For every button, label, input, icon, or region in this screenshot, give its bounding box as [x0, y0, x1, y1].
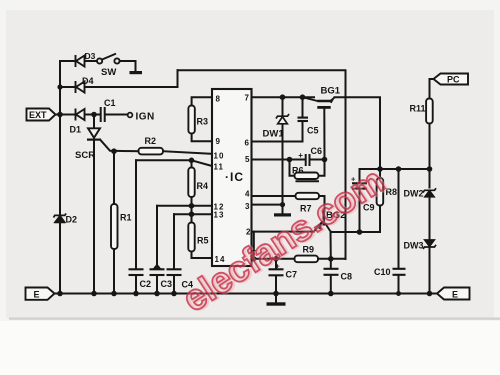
- wire mid right rail: [360, 168, 430, 170]
- wire pin13 line: [174, 213, 212, 215]
- wire pin2 line: [252, 231, 314, 233]
- wire bottom ground stub: [275, 294, 277, 303]
- wire R6 loop: [290, 160, 295, 176]
- transistor BG1: [303, 97, 336, 108]
- op-amp U1 IC box: [212, 89, 252, 266]
- svg-text:5: 5: [245, 155, 250, 164]
- resistor R9: [295, 256, 319, 263]
- transistor BG2: [314, 211, 331, 232]
- switch SW: [97, 54, 120, 64]
- diode D4: [76, 81, 85, 93]
- svg-text:2: 2: [246, 228, 251, 237]
- svg-text:DW1: DW1: [263, 129, 285, 140]
- svg-text:C6: C6: [311, 146, 323, 156]
- svg-text:·IC: ·IC: [225, 170, 244, 184]
- wire R5 to pin14: [192, 252, 213, 259]
- svg-text:C10: C10: [374, 267, 391, 277]
- svg-text:R2: R2: [145, 136, 157, 146]
- wire D3 branch: [60, 60, 76, 62]
- resistor R1: [111, 204, 118, 249]
- wire bottom rail: [55, 293, 438, 295]
- wire R8 bottom lead: [379, 206, 381, 233]
- svg-text:7: 7: [245, 94, 250, 103]
- wire BG2 collector drop: [330, 232, 332, 259]
- wire pin1-2 jumper: [253, 232, 255, 259]
- ground (switch): [130, 71, 143, 74]
- wire pin12 line: [157, 205, 212, 207]
- node IGN terminal: [128, 113, 133, 118]
- resistor R2: [139, 148, 164, 155]
- svg-text:EXT: EXT: [29, 110, 47, 120]
- wire C10 column: [398, 169, 400, 269]
- node E tag right: [437, 288, 470, 300]
- svg-text:C1: C1: [104, 98, 116, 108]
- wire node A horizontal: [136, 159, 192, 161]
- svg-text:13: 13: [214, 211, 225, 220]
- svg-text:C5: C5: [307, 126, 319, 136]
- svg-text:R1: R1: [120, 213, 132, 223]
- resistor R11: [426, 99, 433, 124]
- zener D2: [54, 213, 67, 222]
- svg-text:SW: SW: [101, 67, 116, 78]
- diode D1: [76, 109, 85, 121]
- capacitor C6: [306, 154, 310, 166]
- thyristor SCR: [87, 128, 101, 139]
- svg-text:DW3: DW3: [404, 241, 424, 251]
- capacitor C7: [269, 269, 284, 275]
- svg-text:R3: R3: [197, 117, 209, 127]
- wire C4 column: [173, 214, 175, 269]
- wire pin3 line: [252, 204, 283, 206]
- capacitor C5: [298, 118, 309, 121]
- svg-text:BG1: BG1: [321, 86, 341, 97]
- wire C9 column: [359, 169, 361, 183]
- watermark elecfans.com: [175, 158, 394, 321]
- node EXT tag: [27, 109, 56, 121]
- resistor R4: [188, 168, 194, 198]
- svg-text:C2: C2: [140, 279, 152, 289]
- svg-text:E: E: [452, 290, 458, 300]
- svg-text:D1: D1: [70, 125, 82, 135]
- wire C2 column: [135, 160, 137, 269]
- wire R1 column: [113, 151, 115, 293]
- wire pin4 line: [252, 195, 296, 197]
- wire pin6 line: [252, 141, 303, 143]
- capacitor C10: [393, 269, 406, 275]
- wire R7 to BG2: [319, 196, 325, 211]
- svg-text:R5: R5: [197, 236, 209, 246]
- capacitor C2: [129, 269, 144, 275]
- svg-text:R6: R6: [292, 166, 304, 176]
- wire C5 column: [302, 97, 304, 117]
- scan edge line: [9, 318, 500, 320]
- svg-text:+: +: [298, 151, 303, 160]
- svg-text:4: 4: [245, 190, 250, 199]
- svg-text:D2: D2: [66, 215, 78, 225]
- wire R3 loop: [192, 97, 212, 105]
- svg-text:SCR: SCR: [75, 150, 95, 161]
- svg-text:11: 11: [214, 163, 224, 172]
- diode D3: [76, 55, 85, 67]
- wire C7 node: [275, 259, 277, 269]
- wire R11 DW2 DW3 column: [429, 79, 431, 99]
- node E tag left: [26, 288, 55, 300]
- svg-text:6: 6: [245, 139, 250, 148]
- wire SCR gate to R2: [100, 140, 138, 151]
- zener DW1: [276, 114, 289, 124]
- svg-text:E: E: [34, 290, 40, 300]
- wire R6 underline: [297, 180, 319, 182]
- ground (pin3): [274, 213, 291, 216]
- wire top rail: [178, 70, 346, 259]
- wire C9 R8 bottom line: [331, 231, 381, 233]
- wire R2 to pin10: [163, 151, 212, 154]
- svg-text:9: 9: [216, 137, 221, 146]
- resistor R5: [188, 223, 194, 252]
- capacitor C8: [324, 269, 339, 275]
- wire BG1 base lead: [323, 108, 325, 160]
- resistor R6: [295, 173, 319, 180]
- wire node A to pin11: [192, 160, 213, 166]
- ground (bottom): [267, 302, 286, 305]
- svg-text:C8: C8: [341, 272, 353, 282]
- svg-text:PC: PC: [447, 75, 460, 85]
- zener DW2: [423, 188, 436, 197]
- svg-text:IGN: IGN: [136, 112, 155, 123]
- svg-text:C3: C3: [161, 279, 173, 289]
- capacitor C9: [352, 183, 367, 188]
- wire C3 column: [156, 206, 158, 269]
- capacitor C4: [167, 269, 182, 275]
- capacitor C3: [150, 264, 165, 276]
- wire D4 branch: [60, 86, 76, 88]
- wire EXT line: [55, 114, 76, 116]
- svg-text:DW2: DW2: [404, 189, 424, 199]
- resistor R3: [188, 106, 194, 134]
- svg-text:C7: C7: [286, 270, 298, 280]
- svg-text:8: 8: [216, 95, 221, 104]
- wire pin7 rail: [252, 96, 315, 98]
- wire DW1 column: [282, 97, 284, 115]
- capacitor C1: [101, 107, 105, 122]
- wire C8 column: [330, 259, 332, 269]
- svg-text:R11: R11: [410, 104, 426, 114]
- svg-text:3: 3: [245, 202, 250, 211]
- resistor R8: [377, 178, 384, 206]
- svg-text:R4: R4: [197, 181, 209, 191]
- resistor R7: [296, 193, 320, 199]
- wire left bus vertical: [59, 61, 61, 294]
- wire pin1 R9 line: [250, 258, 295, 260]
- node dots: [57, 84, 432, 296]
- svg-text:10: 10: [214, 152, 225, 161]
- wire SCR anode: [93, 115, 95, 128]
- node PC tag: [434, 74, 469, 85]
- lower white band: [0, 321, 500, 375]
- svg-text:D3: D3: [85, 51, 96, 61]
- wire R4 column: [191, 160, 193, 167]
- wire pin5 line: [252, 159, 306, 161]
- svg-text:D4: D4: [82, 76, 94, 86]
- wire PC lead: [430, 78, 435, 80]
- wire SCR cathode: [93, 140, 95, 294]
- zener DW3: [423, 240, 436, 249]
